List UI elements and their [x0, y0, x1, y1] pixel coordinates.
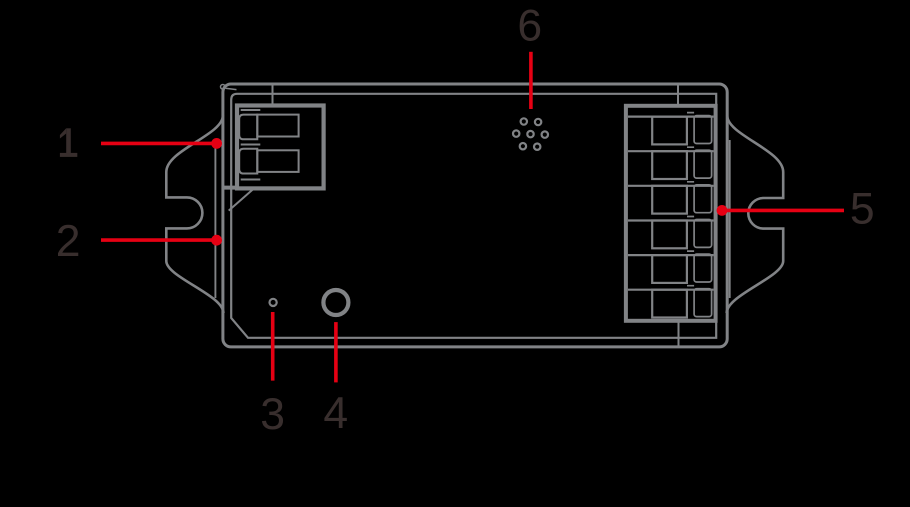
- tick top-left seam: [272, 84, 274, 104]
- TB1 outer frame: [237, 106, 324, 189]
- label 1 (custom glyph with foot bar): [60, 128, 77, 157]
- left wing: [166, 116, 223, 314]
- TB2 side strips: [694, 116, 712, 317]
- top-left corner facet line: [226, 88, 237, 89]
- svg-text:6: 6: [517, 2, 542, 51]
- callout line 2: [101, 238, 213, 242]
- TB1 tab line bottom: [241, 179, 261, 181]
- svg-text:2: 2: [56, 217, 81, 266]
- callout line 6: [529, 52, 533, 109]
- TB1 lever 2: [239, 149, 257, 174]
- push button: [323, 290, 348, 315]
- case lid seam: [231, 94, 716, 338]
- TB2 screw cell 5: [652, 255, 687, 283]
- left wing root: [214, 140, 216, 298]
- svg-text:5: 5: [850, 185, 875, 234]
- TB1 bottom edge extension to body edge: [223, 186, 239, 190]
- svg-text:3: 3: [260, 390, 285, 439]
- TB1 screw cell 2: [257, 150, 298, 172]
- callout line 4: [334, 322, 338, 382]
- svg-text:4: 4: [323, 389, 348, 438]
- TB1 screw cell 1: [257, 115, 298, 137]
- callout dot 2: [211, 235, 222, 246]
- TB2 screw cell 6: [652, 290, 687, 318]
- reset hole: [270, 299, 277, 306]
- TB2 outer frame: [626, 106, 716, 321]
- callout dot 5: [717, 205, 728, 216]
- callout line 1: [101, 142, 213, 146]
- TB2 screw cell 2: [652, 151, 687, 179]
- TB2 row dividers: [628, 117, 714, 290]
- device body outline: [223, 84, 727, 347]
- TB1 lever 1: [239, 115, 257, 140]
- callout dot 1: [211, 138, 222, 149]
- TB2 screw cell 3: [652, 186, 687, 214]
- left terminal block TB1: [223, 106, 324, 189]
- TB1 tab line mid: [241, 144, 261, 146]
- TB2 strip connector ticks: [687, 113, 694, 286]
- callout line 3: [271, 312, 275, 381]
- TB2 screw cell 1: [652, 117, 687, 145]
- right wing root: [729, 140, 731, 298]
- right wing: [727, 116, 784, 314]
- right terminal block TB2: [626, 106, 716, 321]
- chamfer below left terminal block: [229, 189, 253, 210]
- TB2 screw cell 4: [652, 221, 687, 249]
- tick bottom-right seam: [678, 323, 680, 347]
- tick top-right seam: [677, 84, 679, 104]
- top-left corner screw detail: [221, 85, 226, 90]
- TB1 tab line top: [241, 109, 261, 111]
- speaker hole cluster: [513, 118, 548, 150]
- callout line 5: [727, 209, 845, 213]
